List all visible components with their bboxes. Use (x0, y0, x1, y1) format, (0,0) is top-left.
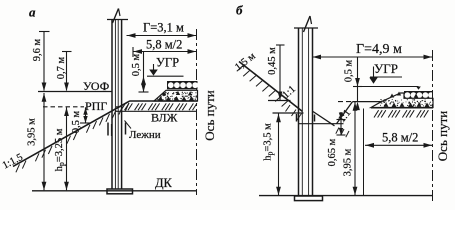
sleepers (lezhni) strokes beside pole (108, 123, 126, 137)
foundation bottom line figure a (32, 190, 197, 192)
rail and sleeper row (circles) figure b (404, 91, 434, 99)
dimension 9,6 m (32, 32, 50, 92)
svg-text:Г=4,9 м: Г=4,9 м (356, 42, 402, 57)
svg-text:0,5 м: 0,5 м (131, 53, 142, 76)
UGR rail head level symbol figure a (147, 56, 184, 77)
slope toe hatching near pole figure b (286, 105, 302, 120)
Lezhni label with leader (125, 121, 161, 142)
shoulder ground line dashed extension figure b (338, 101, 353, 103)
svg-text:Ось пути: Ось пути (435, 111, 450, 161)
svg-text:5,8 м/2: 5,8 м/2 (146, 38, 182, 52)
pole top cap with break mark, figure a (107, 9, 128, 24)
svg-text:б: б (236, 3, 243, 18)
dimension G=3,1 m (127, 21, 197, 38)
dimension 0,45 m (267, 45, 285, 100)
svg-text:ДК: ДК (155, 176, 173, 190)
svg-text:0,65 м: 0,65 м (327, 138, 338, 166)
UOF level line (top of foundation) (38, 91, 112, 93)
berm level line figure b (268, 100, 291, 102)
dimension 0,5 m figure b (344, 58, 363, 111)
dimension hp=3,25 m (54, 107, 69, 190)
svg-text:ВЛЖ: ВЛЖ (151, 111, 178, 125)
svg-text:УГР: УГР (156, 56, 179, 70)
track axis line figure a (196, 29, 198, 195)
svg-text:Ось пути: Ось пути (202, 90, 217, 140)
svg-text:3,95 м: 3,95 м (343, 148, 354, 176)
dimension 0,65 m (327, 112, 346, 166)
dimension hp=3,5 m (263, 114, 281, 196)
pole base plate figure b (295, 196, 323, 201)
ballast prism figure b (371, 92, 433, 108)
dimension 5,8 m/2 figure a (133, 38, 197, 58)
hatching at pit right slope (336, 128, 349, 138)
svg-text:3,95 м: 3,95 м (27, 118, 38, 146)
svg-text:0,5 м: 0,5 м (344, 59, 355, 82)
slope hatching figure b (237, 66, 288, 107)
UGR rail head level symbol figure b (358, 61, 421, 90)
track axis line figure b (432, 50, 434, 204)
pit floor line figure b (299, 123, 344, 125)
svg-text:0,5 м: 0,5 м (71, 110, 82, 133)
shoulder ground line figure b (353, 101, 382, 103)
dimension 0,7 m (56, 52, 72, 92)
dimension 0,5 m (UGR to shoulder) figure a (131, 52, 149, 92)
svg-text:УОФ: УОФ (83, 79, 109, 93)
svg-text:9,6 м: 9,6 м (32, 38, 43, 61)
sleepers (lezhni) strokes figure b (297, 114, 315, 122)
sleepers level line figure b (273, 112, 304, 114)
dimension G=4,9 m (312, 42, 433, 59)
ground hatching under prism figure b (374, 110, 428, 117)
dimension 5,8 m/2 figure b (365, 131, 433, 148)
cutting slope line 1:1 (left of pole) figure b (239, 62, 303, 112)
svg-text:РПГ: РПГ (85, 99, 107, 113)
pole top cap with break mark, figure b (294, 16, 318, 32)
dimension 3,95 m figure a (27, 93, 47, 190)
svg-text:0,7 м: 0,7 м (56, 56, 67, 79)
svg-text:Г=3,1 м: Г=3,1 м (143, 21, 184, 35)
dimension 0,5 m (left, RPG to sleepers) (71, 107, 91, 133)
slope hatching figure a (16, 103, 129, 172)
pole (support mast) figure b (299, 28, 313, 196)
RPG dashed level line (43, 106, 84, 108)
ballast prism figure a (154, 90, 198, 101)
pit slope right of pole (313, 112, 335, 126)
pole base plate figure a (107, 189, 133, 194)
dimension 3,95 m figure b (343, 102, 358, 195)
svg-text:0,45 м: 0,45 м (267, 47, 278, 75)
svg-text:УГР: УГР (374, 61, 398, 76)
pit right slope 1:1 (337, 102, 353, 124)
svg-text:5,8 м/2: 5,8 м/2 (382, 131, 418, 145)
extension line for 5,8 m/2 figure b (363, 109, 365, 196)
foundation bottom line figure b (259, 195, 433, 197)
pole (support mast) figure a (112, 20, 122, 190)
svg-text:а: а (29, 5, 36, 20)
rail and sleeper row (circles) figure a (167, 81, 198, 89)
ground shoulder line and hatched band figure a (115, 101, 198, 111)
svg-text:Лежни: Лежни (129, 129, 161, 141)
cutting slope line 1:1.5 (13, 101, 130, 167)
